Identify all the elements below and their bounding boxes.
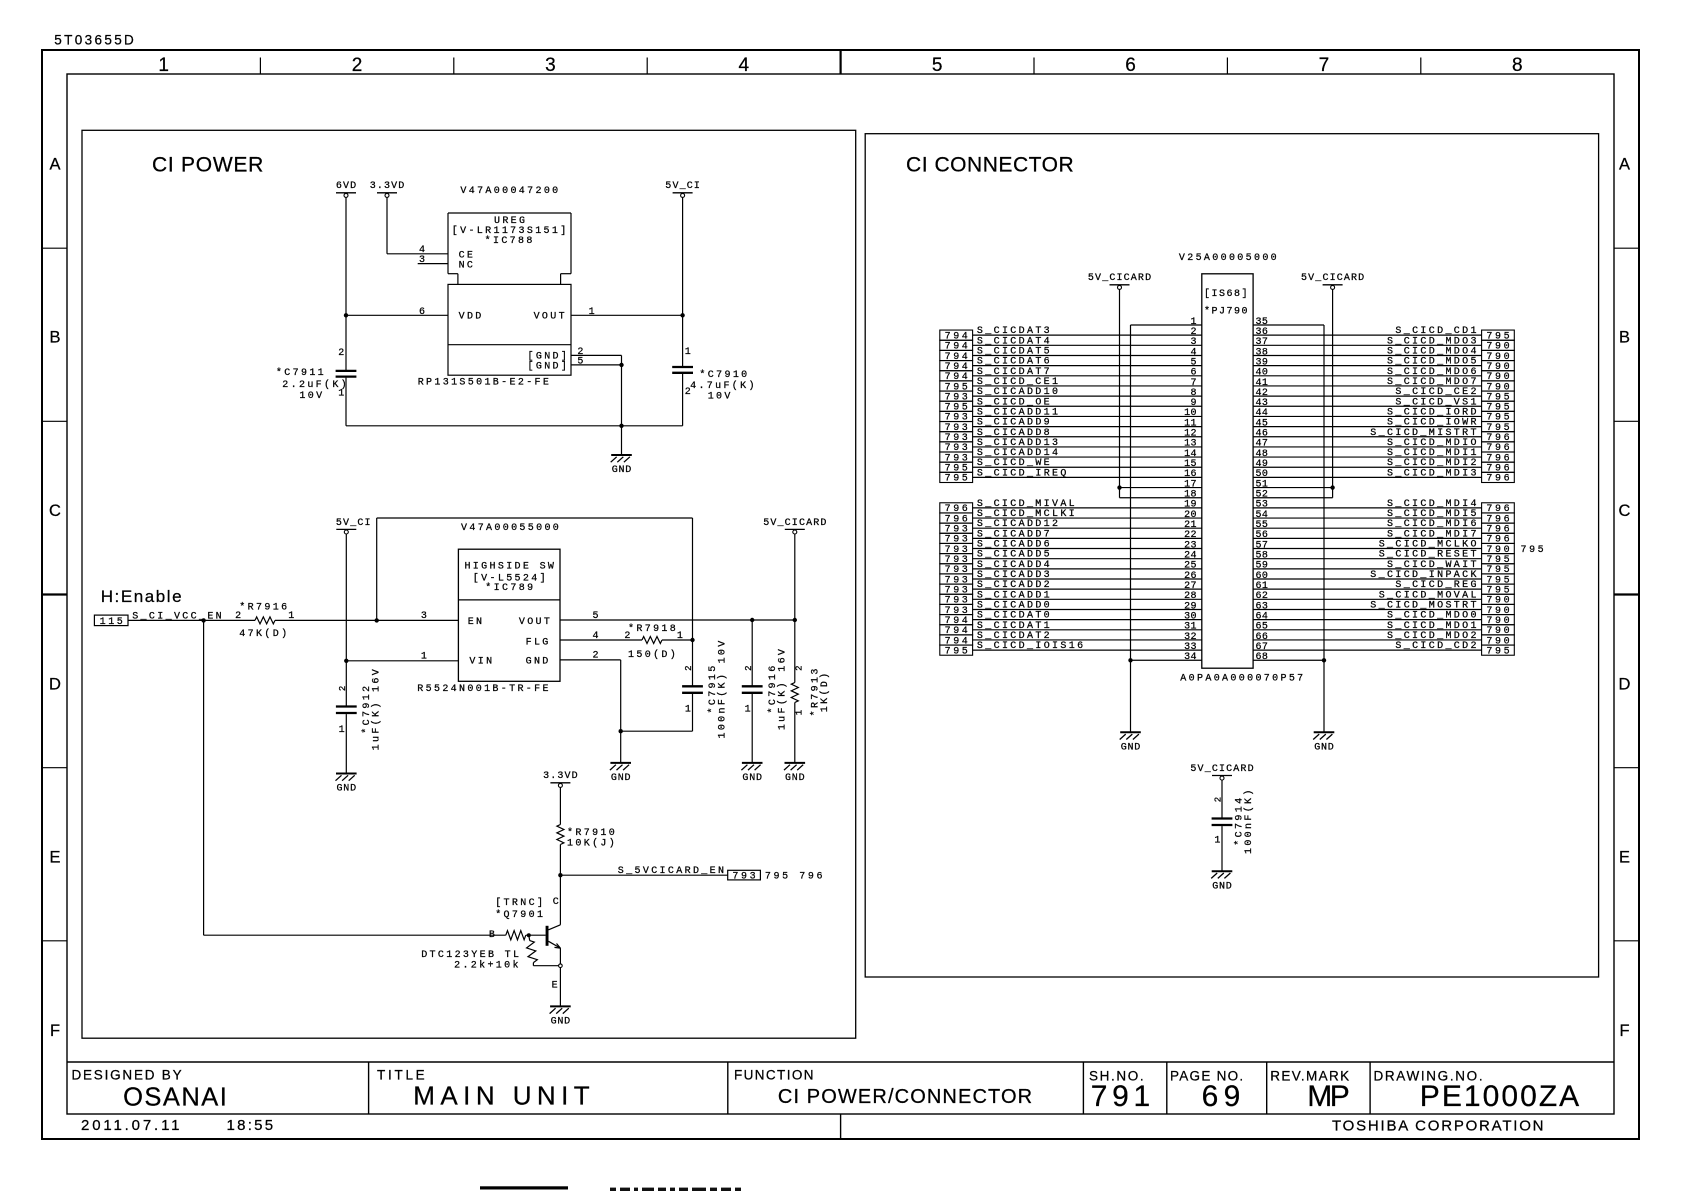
PJ790 pin 12 S_CICADD8 [940, 428, 1202, 444]
ground GND C7914 [1211, 871, 1232, 892]
PJ790 pin 10 S_CICADD11 [940, 407, 1202, 423]
svg-text:MP: MP [1307, 1080, 1350, 1113]
PJ790 pin 63 S_CICD_MOSTRT [1253, 600, 1514, 616]
svg-text:E: E [1619, 849, 1630, 867]
PJ790 pin 4 S_CICDAT5 [940, 346, 1202, 362]
switch IC789 body [458, 549, 560, 681]
svg-text:1: 1 [685, 705, 691, 716]
switch IC789 labels [464, 562, 554, 668]
svg-text:5: 5 [577, 357, 583, 368]
regulator IC788 labels [452, 216, 567, 271]
svg-text:GND: GND [742, 773, 762, 784]
svg-text:1: 1 [589, 307, 595, 318]
wire VOUT pin 5 [560, 618, 797, 622]
svg-text:1: 1 [685, 347, 691, 358]
wire collector [559, 875, 561, 925]
capacitor C7915 labels [684, 641, 728, 739]
PJ790 pin 5 S_CICDAT6 [940, 357, 1202, 373]
PJ790 pin 19 S_CICD_MIVAL [940, 499, 1202, 515]
svg-text:7: 7 [1319, 55, 1330, 76]
svg-text:1: 1 [745, 705, 751, 716]
title block PAGE NO. [1170, 1068, 1243, 1083]
svg-text:1: 1 [794, 710, 804, 715]
wire S_CI_VCC_EN to R7916 [128, 618, 255, 622]
PJ790 pin 40 S_CICD_MDO6 [1253, 367, 1514, 383]
resistor R7916 [255, 617, 275, 624]
title block designer OSANAI [123, 1084, 227, 1112]
CI POWER section box [82, 130, 856, 1038]
svg-text:115: 115 [100, 617, 123, 628]
ground GND connector right [1313, 660, 1334, 753]
PJ790 pin 68 stub [1253, 652, 1324, 663]
column label 8 [1512, 55, 1523, 76]
svg-text:GND: GND [1212, 881, 1232, 892]
PJ790 pin 51 stub [1253, 479, 1333, 490]
column tick [1226, 58, 1228, 75]
PJ790 pin 62 S_CICD_MOVAL [1253, 590, 1514, 606]
PJ790 pin 42 S_CICD_CE2 [1253, 387, 1514, 403]
svg-text:2: 2 [794, 665, 804, 670]
svg-text:2: 2 [744, 665, 754, 670]
svg-text:795: 795 [1486, 646, 1509, 657]
title block MAIN UNIT [413, 1081, 590, 1111]
capacitor C7910 [672, 315, 693, 426]
PJ790 pin 44 S_CICD_IORD [1253, 407, 1514, 423]
svg-text:HIGHSIDE SW: HIGHSIDE SW [464, 562, 554, 573]
svg-text:5V_CICARD: 5V_CICARD [1301, 273, 1364, 284]
row tick left [42, 420, 67, 422]
PJ790 pin 32 S_CICDAT2 [940, 631, 1202, 647]
title block CI POWER/CONNECTOR [778, 1086, 1032, 1108]
ground GND connector left [1120, 660, 1141, 753]
svg-text:A: A [1619, 155, 1630, 173]
part number V47A00055000 [461, 523, 559, 534]
column label 2 [352, 55, 363, 76]
ground GND Q7901 [550, 1006, 571, 1027]
wire 5V_CI to VIN [344, 534, 348, 663]
row label F left [50, 1022, 60, 1040]
power pin 5V_CICARD highside [763, 518, 826, 534]
transistor Q7901 labels [495, 897, 543, 921]
row tick left [42, 593, 67, 595]
svg-text:H:Enable: H:Enable [101, 587, 182, 606]
svg-text:*PJ790: *PJ790 [1204, 306, 1248, 318]
capacitor C7912 [336, 661, 357, 774]
row label A left [49, 155, 60, 173]
svg-text:3: 3 [421, 611, 427, 622]
PJ790 pin 56 S_CICD_MDI7 [1253, 529, 1514, 545]
PJ790 pin 22 S_CICADD7 [940, 529, 1202, 545]
svg-text:[GND]: [GND] [528, 360, 567, 372]
PJ790 pin 50 S_CICD_MDI3 [1253, 468, 1514, 484]
power pin 5V_CICARD C7914 [1190, 764, 1253, 780]
wire base from S_CI_VCC_EN node [204, 620, 506, 935]
pin number 5 VOUT [593, 611, 599, 622]
pin number 2 [577, 347, 583, 358]
PJ790 pin 7 S_CICD_CE1 [940, 377, 1202, 393]
PJ790 pin 13 S_CICADD13 [940, 438, 1202, 454]
svg-text:10V: 10V [708, 392, 731, 403]
part number V25A00005000 [1179, 253, 1277, 264]
title block revision MP [1307, 1080, 1350, 1113]
svg-text:1K(D): 1K(D) [819, 673, 831, 712]
regulator U IC788 upper body [448, 213, 571, 284]
row tick left [42, 247, 67, 249]
svg-text:D: D [1619, 675, 1631, 693]
column label 1 [158, 55, 169, 76]
column label 6 [1125, 55, 1136, 76]
pin number 3 [419, 255, 425, 266]
PJ790 pin 23 S_CICADD6 [940, 540, 1202, 556]
svg-text:3: 3 [545, 55, 556, 76]
svg-text:5: 5 [932, 55, 943, 76]
row label C left [49, 502, 61, 520]
wire ground bus C7911 to C7910 [346, 424, 683, 428]
ground GND C7915 [610, 731, 631, 784]
wire 5V_CICARD down [794, 534, 796, 620]
bottom edge bar fragment [480, 1186, 568, 1189]
power pin 5V_CI highside [336, 518, 371, 534]
PJ790 pin 29 S_CICADD0 [940, 600, 1202, 616]
svg-text:1: 1 [421, 652, 427, 663]
CI CONNECTOR section title [906, 154, 1074, 177]
svg-text:GND: GND [611, 773, 631, 784]
PJ790 pin 47 S_CICD_MDIO [1253, 438, 1514, 454]
svg-text:5V_CI: 5V_CI [665, 181, 700, 192]
resistor R7910 [557, 787, 564, 877]
PJ790 pin 25 S_CICADD4 [940, 560, 1202, 576]
wire GND pin 2 of IC789 [560, 660, 623, 734]
capacitor C7914 [1212, 780, 1233, 871]
ground GND UREG [611, 426, 632, 476]
column tick [1420, 58, 1422, 75]
net label S_5VCICARD_EN [560, 866, 727, 877]
row tick right [1614, 593, 1639, 595]
PJ790 pin 46 S_CICD_MISTRT [1253, 428, 1514, 444]
pin number 5 [577, 357, 583, 368]
PJ790 pin 8 S_CICADD10 [940, 387, 1202, 403]
svg-text:793: 793 [732, 871, 755, 882]
PJ790 pin 15 S_CICD_WE [940, 458, 1202, 474]
title block DESIGNED BY [72, 1067, 182, 1082]
PJ790 pin 45 S_CICD_IOWR [1253, 418, 1514, 434]
PJ790 pin 55 S_CICD_MDI6 [1253, 519, 1514, 535]
resistor base 2.2k [506, 931, 546, 940]
svg-text:795: 795 [945, 474, 968, 485]
svg-text:8: 8 [1512, 55, 1523, 76]
label H:Enable [101, 587, 182, 606]
regulator IC788 pin labels VDD VOUT GND [459, 311, 567, 372]
svg-text:D: D [49, 675, 61, 693]
title block drawing number PE1000ZA [1420, 1080, 1579, 1113]
svg-text:OSANAI: OSANAI [123, 1084, 227, 1112]
svg-text:2: 2 [593, 651, 599, 662]
ground GND C7916 [741, 763, 762, 784]
resistor 10k base-emitter [527, 935, 563, 967]
column tick [646, 58, 648, 75]
capacitor C7912 labels [338, 669, 382, 750]
ground GND R7913 [784, 763, 805, 784]
PJ790 pin 28 S_CICADD1 [940, 590, 1202, 606]
title block DRAWING.NO. [1374, 1068, 1483, 1083]
svg-text:C: C [553, 897, 559, 908]
row label A right [1619, 155, 1630, 173]
part label DTC123YEB TL [421, 950, 519, 972]
title block TOSHIBA CORPORATION [1332, 1117, 1544, 1134]
svg-text:F: F [50, 1022, 60, 1040]
svg-text:33: 33 [1184, 642, 1196, 653]
row label B right [1619, 329, 1630, 347]
PJ790 pin 20 S_CICD_MCLKI [940, 509, 1202, 525]
label C collector [553, 897, 559, 908]
wire GND pin 2 [571, 355, 622, 365]
PJ790 pin 52 stub [1253, 490, 1333, 501]
column label 3 [545, 55, 556, 76]
PJ790 pin 18 stub [1120, 490, 1202, 501]
capacitor C7911 [336, 315, 357, 426]
row label D left [49, 675, 61, 693]
row label E left [49, 849, 60, 867]
PJ790 pin 11 S_CICADD9 [940, 418, 1202, 434]
svg-text:795: 795 [945, 646, 968, 657]
row label F right [1619, 1022, 1629, 1040]
svg-text:50: 50 [1256, 469, 1268, 480]
power pin 5V_CI [665, 181, 700, 197]
title block page number 69 [1202, 1080, 1241, 1113]
svg-text:1: 1 [158, 55, 169, 76]
PJ790 pin 30 S_CICDAT0 [940, 611, 1202, 627]
svg-text:CI POWER: CI POWER [152, 154, 263, 177]
bottom edge text fragments [610, 1188, 741, 1191]
PJ790 pin 14 S_CICADD14 [940, 448, 1202, 464]
pin number 1 VIN [421, 652, 427, 663]
svg-text:6: 6 [419, 307, 425, 318]
wire 5V_CI down [682, 197, 684, 315]
wire 3.3VD to CE pin 4 [387, 197, 448, 253]
power pin 5V_CICARD connector right [1301, 273, 1364, 289]
svg-text:5: 5 [593, 611, 599, 622]
wire VOUT pin 1 to 5V_CI node [571, 313, 685, 317]
pin number 4 FLG [593, 631, 599, 642]
PJ790 pin 3 S_CICDAT4 [940, 336, 1202, 352]
PJ790 pin 2 S_CICDAT3 [940, 326, 1202, 342]
svg-text:5V_CICARD: 5V_CICARD [1190, 764, 1253, 775]
power pin 3.3VD [370, 181, 405, 197]
wire 5V_CICARD left to pin 17/18 [1117, 289, 1121, 497]
capacitor C7910 labels [685, 347, 755, 403]
svg-text:VIN: VIN [469, 657, 492, 668]
svg-text:2: 2 [338, 348, 344, 359]
drawing number 5T03655D [54, 32, 134, 47]
svg-text:16: 16 [1184, 469, 1196, 480]
row tick right [1614, 767, 1639, 769]
svg-text:795 796: 795 796 [765, 872, 823, 883]
svg-text:796: 796 [1486, 474, 1509, 485]
PJ790 pin 41 S_CICD_MDO7 [1253, 377, 1514, 393]
resistor R7913 [791, 620, 798, 763]
PJ790 pin 37 S_CICD_MDO3 [1253, 336, 1514, 352]
CI CONNECTOR section box [865, 134, 1598, 977]
row label E right [1619, 849, 1630, 867]
column label 7 [1319, 55, 1330, 76]
PJ790 pin 54 S_CICD_MDI5 [1253, 509, 1514, 525]
power pin 3.3VD transistor [543, 771, 578, 787]
PJ790 pin 31 S_CICDAT1 [940, 621, 1202, 637]
PJ790 pin 64 S_CICD_MDO0 [1253, 611, 1514, 627]
capacitor C7916 [742, 620, 763, 763]
svg-text:A: A [49, 155, 60, 173]
column tick [453, 58, 455, 75]
svg-text:1: 1 [1214, 836, 1220, 847]
svg-text:C: C [49, 502, 61, 520]
PJ790 pin 57 S_CICD_MCLKO [1253, 540, 1514, 556]
svg-text:E: E [49, 849, 60, 867]
svg-text:6: 6 [1125, 55, 1136, 76]
PJ790 pin 26 S_CICADD3 [940, 570, 1202, 586]
title block SH.NO. [1089, 1068, 1144, 1083]
net label S_CI_VCC_EN [132, 611, 222, 622]
svg-text:34: 34 [1184, 652, 1196, 663]
column tick [1033, 58, 1035, 75]
wire R7916 to EN pin [275, 618, 458, 622]
wire VIN pin 1 [346, 660, 458, 662]
power pin 6VD [336, 181, 356, 197]
pin number 2 GND IC789 [593, 651, 599, 662]
pin number 4 [419, 245, 425, 256]
wire 6VD to VDD node [345, 197, 347, 315]
svg-text:3: 3 [419, 255, 425, 266]
svg-text:B: B [49, 329, 60, 347]
svg-text:18:55: 18:55 [227, 1117, 274, 1134]
title block TITLE [377, 1067, 425, 1082]
PJ790 pin 27 S_CICADD2 [940, 580, 1202, 596]
pin number 6 [419, 307, 425, 318]
title block date 2011.07.11 18:55 [81, 1117, 273, 1134]
PJ790 pin 36 S_CICD_CD1 [1253, 326, 1514, 342]
PJ790 pin 35 stub [1253, 317, 1324, 328]
PJ790 pin 61 S_CICD_REG [1253, 580, 1514, 596]
svg-text:1: 1 [339, 725, 345, 736]
svg-text:MAIN UNIT: MAIN UNIT [413, 1081, 590, 1111]
title block sheet number 791 [1091, 1080, 1150, 1113]
PJ790 pin 17 stub [1120, 479, 1202, 490]
PJ790 pin 60 S_CICD_INPACK [1253, 570, 1514, 586]
PJ790 pin 1 stub [1131, 317, 1202, 328]
svg-text:E: E [552, 981, 558, 992]
part number RP131S501B-E2-FE [418, 378, 549, 389]
column tick [839, 50, 841, 74]
svg-text:[IS68]: [IS68] [1204, 288, 1248, 300]
bus wire right pins 35-68 [1322, 325, 1326, 662]
svg-text:GND: GND [337, 784, 357, 795]
title block REV.MARK [1270, 1068, 1349, 1083]
pin number 1 [589, 307, 595, 318]
svg-text:3.3VD: 3.3VD [370, 181, 405, 192]
PJ790 pin 21 S_CICADD12 [940, 519, 1202, 535]
regulator IC788 lower body [448, 284, 571, 375]
svg-text:2: 2 [352, 55, 363, 76]
svg-text:GND: GND [551, 1017, 571, 1028]
part number V47A00047200 [460, 186, 558, 197]
PJ790 pin 66 S_CICD_MDO2 [1253, 631, 1514, 647]
svg-text:VDD: VDD [459, 311, 482, 322]
wire EN node to FLG pullup top [377, 518, 693, 640]
PJ790 pin 53 S_CICD_MDI4 [1253, 499, 1514, 515]
PJ790 pin 48 S_CICD_MDI1 [1253, 448, 1514, 464]
part number A0PA0A000070P57 [1180, 674, 1303, 685]
resistor R7910 labels [567, 827, 615, 850]
pin number 3 EN [421, 611, 427, 622]
svg-text:GND: GND [1314, 743, 1334, 754]
PJ790 pin 49 S_CICD_MDI2 [1253, 458, 1514, 474]
svg-text:4: 4 [593, 631, 599, 642]
wire emitter to ground [559, 968, 561, 1007]
svg-text:C: C [1619, 502, 1631, 520]
svg-text:68: 68 [1256, 652, 1268, 663]
svg-text:6VD: 6VD [336, 181, 356, 192]
label E emitter [552, 981, 558, 992]
capacitor C7914 labels [1214, 790, 1255, 854]
svg-text:GND: GND [526, 657, 549, 668]
power pin 5V_CICARD connector left [1088, 273, 1151, 289]
row tick right [1614, 247, 1639, 249]
connector PJ790 body [1202, 274, 1253, 668]
svg-text:2: 2 [338, 686, 348, 691]
PJ790 pin 43 S_CICD_VS1 [1253, 397, 1514, 413]
svg-text:B: B [489, 930, 495, 941]
svg-text:2: 2 [684, 665, 694, 670]
svg-text:FLG: FLG [526, 637, 549, 648]
svg-text:[V-L5524]: [V-L5524] [473, 573, 546, 585]
capacitor C7916 labels [744, 649, 789, 730]
svg-text:DESIGNED BY: DESIGNED BY [72, 1067, 182, 1082]
net label 795 pin 57 [1521, 545, 1544, 556]
resistor R7913 labels [794, 665, 831, 716]
PJ790 pin 39 S_CICD_MDO5 [1253, 357, 1514, 373]
wire 5V_CICARD right to pin 51/52 [1330, 289, 1334, 497]
CI POWER section title [152, 154, 263, 177]
svg-text:791: 791 [1091, 1080, 1150, 1113]
svg-text:5V_CI: 5V_CI [336, 518, 371, 529]
PJ790 pin 16 S_CICD_IREQ [940, 468, 1202, 484]
label B base [489, 930, 495, 941]
svg-text:3.3VD: 3.3VD [543, 771, 578, 782]
PJ790 pin 33 S_CICD_IOIS16 [940, 641, 1202, 657]
svg-text:GND: GND [612, 465, 632, 476]
transistor Q7901 [546, 925, 561, 966]
PJ790 pin 34 stub [1131, 652, 1202, 663]
resistor R7918 labels [624, 623, 683, 661]
part number R5524N001B-TR-FE [417, 684, 548, 695]
svg-text:F: F [1619, 1022, 1629, 1040]
PJ790 pin 59 S_CICD_WAIT [1253, 560, 1514, 576]
PJ790 pin 58 S_CICD_RESET [1253, 550, 1514, 566]
title block FUNCTION [734, 1067, 814, 1082]
resistor R7916 labels [235, 602, 294, 640]
svg-text:795: 795 [1521, 545, 1544, 556]
wire FLG pin 4 [560, 639, 642, 641]
svg-text:S_CICD_IREQ: S_CICD_IREQ [977, 468, 1067, 479]
resistor R7918 [642, 637, 662, 644]
svg-text:FUNCTION: FUNCTION [734, 1067, 814, 1082]
net stub 793 795 796 [728, 870, 823, 882]
column label 4 [739, 55, 750, 76]
svg-text:B: B [1619, 329, 1630, 347]
svg-text:67: 67 [1256, 642, 1268, 653]
svg-text:S_CICD_MDI3: S_CICD_MDI3 [1387, 468, 1477, 479]
svg-text:CI CONNECTOR: CI CONNECTOR [906, 154, 1074, 177]
capacitor C7915 [621, 640, 703, 731]
